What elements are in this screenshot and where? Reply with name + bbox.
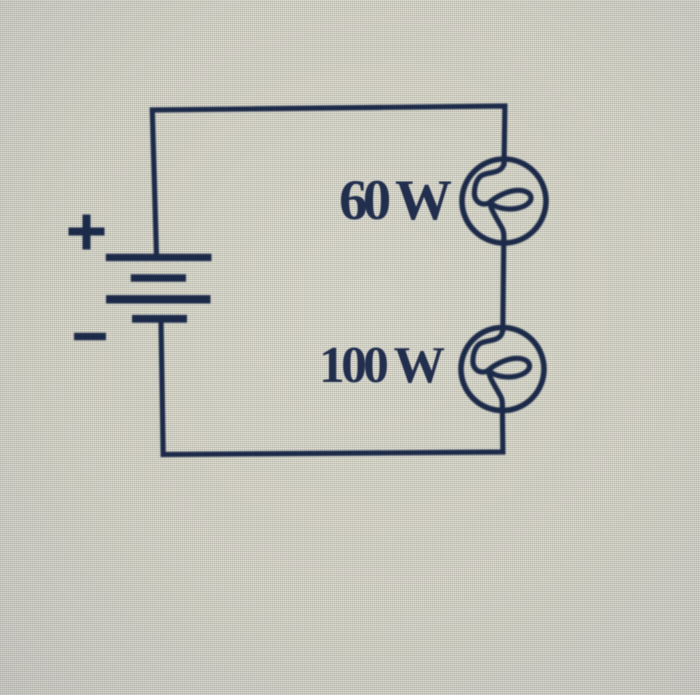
battery B1	[106, 257, 212, 318]
minus sign (- terminal)	[74, 333, 106, 341]
lamp L1 (60 W) circle	[462, 159, 546, 243]
battery plate short (-)	[132, 315, 187, 323]
lamp L1 filament	[474, 160, 531, 242]
battery plate long	[106, 295, 211, 303]
plus sign (+ terminal)	[69, 215, 105, 250]
wire lower run: battery - plate, down left side, across bottom, up to 100W lamp	[161, 320, 503, 455]
wire upper run: battery + plate, up left side, across top, down to 60W lamp	[152, 106, 505, 256]
svg-text:100 W: 100 W	[319, 337, 445, 394]
lamp L2 (100 W) circle	[461, 328, 544, 411]
lamp L2 filament	[473, 329, 530, 410]
wire middle right: between 60W and 100W lamps	[503, 238, 504, 332]
svg-text:60 W: 60 W	[339, 169, 452, 232]
battery plate short	[131, 274, 186, 282]
battery plate long (+)	[106, 254, 212, 261]
